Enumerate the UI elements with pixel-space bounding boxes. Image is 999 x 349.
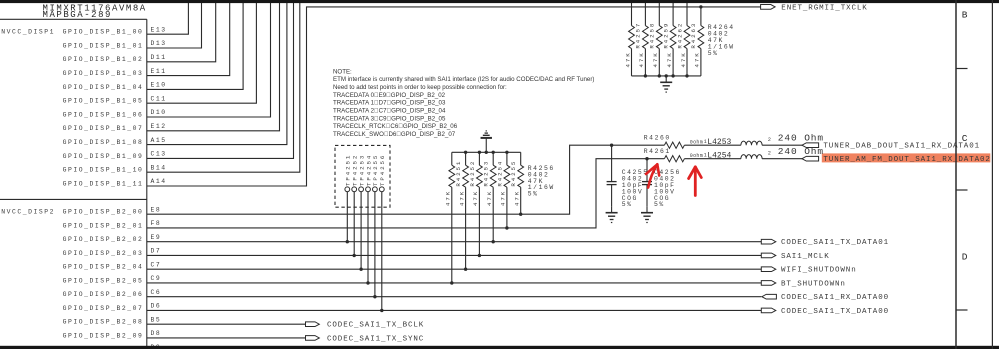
pin GPIO_DISP_B1_10 (B14) and wire (63, 0, 300, 174)
junction dots B2 nets (346, 213, 523, 313)
svg-text:ENET_RGMII_TXCLK: ENET_RGMII_TXCLK (781, 4, 867, 12)
ferrite bead L4253 240 Ohm (704, 132, 824, 147)
resistor R4252 47K (458, 152, 475, 269)
svg-text:R4263: R4263 (690, 22, 697, 49)
svg-text:5%: 5% (708, 50, 719, 57)
svg-text:R4258: R4258 (649, 22, 656, 49)
pin GPIO_DISP_B2_04 (C7) and wire (63, 261, 762, 270)
IC part number label (43, 3, 147, 20)
svg-text:R4253: R4253 (483, 160, 490, 187)
svg-text:D13: D13 (151, 40, 167, 47)
svg-text:C11: C11 (151, 95, 167, 102)
resistor R4257 47K (624, 0, 641, 76)
ground (below C4255) (606, 206, 618, 222)
svg-text:47K: 47K (680, 51, 687, 67)
pin GPIO_DISP_B2_01 (F8) and wire (63, 159, 665, 230)
resistor R4262 47K (666, 0, 683, 76)
svg-text:CODEC_SAI1_TX_DATA01: CODEC_SAI1_TX_DATA01 (781, 239, 889, 247)
off-page flag BT_SHUTDOWNn (761, 280, 846, 288)
svg-text:GPIO_DISP_B2_06: GPIO_DISP_B2_06 (63, 291, 144, 298)
svg-text:TRACEDATA 2C7GPIO_DISP_B2_04: TRACEDATA 2C7GPIO_DISP_B2_04 (333, 108, 446, 115)
resistor R4256 value label (528, 165, 555, 198)
ground (below C4256) (641, 206, 653, 222)
capacitor C4255 value label (622, 169, 649, 208)
svg-text:R4252: R4252 (469, 160, 476, 187)
svg-text:D8: D8 (151, 330, 162, 337)
pin GPIO_DISP_B1_09 (C13) and wire (63, 0, 294, 160)
svg-text:SAI1_MCLK: SAI1_MCLK (781, 253, 830, 261)
svg-text:47K: 47K (694, 51, 701, 67)
svg-text:NVCC_DISP2: NVCC_DISP2 (1, 209, 55, 216)
svg-text:47K: 47K (638, 51, 645, 67)
off-page flag CODEC_SAI1_RX_DATA00 (762, 294, 889, 302)
svg-text:E12: E12 (151, 123, 167, 130)
svg-text:0ohm: 0ohm (690, 139, 703, 145)
note text block (333, 68, 594, 138)
capacitor C4255 10pF (607, 144, 617, 207)
svg-text:NVCC_DISP1: NVCC_DISP1 (1, 29, 55, 36)
svg-text:A15: A15 (151, 137, 167, 144)
svg-text:47K: 47K (486, 190, 493, 206)
svg-text:GPIO_DISP_B2_01: GPIO_DISP_B2_01 (63, 222, 144, 229)
svg-text:47K: 47K (514, 190, 521, 206)
svg-text:TRACECLK_RTCKC6GPIO_DISP_B2_: TRACECLK_RTCKC6GPIO_DISP_B2_06 (333, 123, 458, 130)
pin GPIO_DISP_B1_11 (A14) and wire (63, 7, 761, 188)
svg-text:5%: 5% (528, 191, 539, 198)
svg-text:R4251: R4251 (455, 160, 462, 187)
svg-text:TRACECLK_SWOD6GPIO_DISP_B2_0: TRACECLK_SWOD6GPIO_DISP_B2_07 (333, 131, 456, 138)
ground (above R4251-R4256 rail) (481, 131, 492, 152)
svg-text:WIFI_SHUTDOWNn: WIFI_SHUTDOWNn (781, 267, 857, 275)
svg-text:47K: 47K (666, 51, 673, 67)
pin GPIO_DISP_B1_04 (E10) and wire (63, 0, 243, 91)
highlight net TUNER_AM_FM_DOUT_SAI1_RX_DATA02 (822, 153, 991, 162)
pin GPIO_DISP_B2_00 (E8) and wire (63, 145, 665, 215)
resistor R4258 47K (638, 0, 655, 76)
svg-text:TRACEDATA 3C9GPIO_DISP_B2_05: TRACEDATA 3C9GPIO_DISP_B2_05 (333, 115, 446, 122)
svg-text:B14: B14 (151, 164, 167, 171)
svg-text:C9: C9 (151, 275, 162, 282)
svg-text:GPIO_DISP_B1_06: GPIO_DISP_B1_06 (63, 111, 144, 118)
pin GPIO_DISP_B1_08 (A15) and wire (63, 0, 287, 146)
svg-text:D10: D10 (151, 109, 167, 116)
resistor R4264 47K (694, 7, 704, 76)
svg-text:GPIO_DISP_B1_09: GPIO_DISP_B1_09 (63, 153, 144, 160)
resistor R4256 47K (514, 152, 524, 214)
svg-text:BT_SHUTDOWNn: BT_SHUTDOWNn (781, 280, 846, 288)
wire R4261 to L4254 (684, 158, 741, 160)
wire L4253 to flag (762, 144, 802, 146)
resistor R4260 0ohm (644, 135, 703, 149)
svg-text:A14: A14 (151, 178, 167, 185)
svg-text:MAPBGA-289: MAPBGA-289 (43, 10, 113, 20)
resistor R4259 47K (652, 0, 669, 76)
test point TP4254 (365, 154, 372, 283)
pin GPIO_DISP_B2_07 (D6) and wire (63, 303, 762, 312)
resistor array rail (R4251-R4256 top rail) (452, 151, 521, 154)
svg-text:D11: D11 (151, 54, 167, 61)
svg-text:2: 2 (768, 137, 771, 143)
pin GPIO_DISP_B1_01 (D13) and wire (63, 0, 202, 49)
svg-text:GPIO_DISP_B1_05: GPIO_DISP_B1_05 (63, 98, 144, 105)
pin GPIO_DISP_B1_03 (E11) and wire (63, 0, 230, 77)
svg-text:GPIO_DISP_B1_02: GPIO_DISP_B1_02 (63, 56, 144, 63)
svg-text:47K: 47K (458, 190, 465, 206)
svg-text:47K: 47K (652, 51, 659, 67)
pin GPIO_DISP_B2_08 (B5) and wire (63, 316, 306, 325)
svg-text:R4260: R4260 (644, 135, 671, 142)
svg-text:L4254: L4254 (707, 152, 731, 161)
off-page flag CODEC_SAI1_TX_SYNC (306, 335, 425, 343)
svg-text:47K: 47K (624, 51, 631, 67)
svg-text:R4257: R4257 (635, 22, 642, 49)
svg-text:R4262: R4262 (676, 22, 683, 49)
pin GPIO_DISP_B2_09 (D8) and wire (63, 330, 306, 339)
junction dot R4264 to ENET wire (699, 5, 702, 8)
off-page flag WIFI_SHUTDOWNn (761, 267, 856, 275)
pin GPIO_DISP_B1_02 (D11) and wire (63, 0, 216, 63)
svg-text:GPIO_DISP_B1_07: GPIO_DISP_B1_07 (63, 125, 144, 132)
test point dashed group box (335, 145, 390, 207)
svg-text:E11: E11 (151, 68, 167, 75)
pin GPIO_DISP_B1_00 (E13) and wire (63, 0, 189, 36)
svg-text:240 Ohm: 240 Ohm (778, 146, 824, 157)
wire R4260 to L4253 (684, 144, 741, 146)
svg-text:ETM interface is currently sha: ETM interface is currently shared with S… (333, 76, 594, 83)
svg-text:47K: 47K (500, 190, 507, 206)
test point TP4252 (352, 154, 359, 256)
off-page flag TUNER_AM_FM_DOUT_SAI1_RX_DATA02 (802, 156, 991, 164)
resistor R4263 47K (680, 0, 697, 76)
svg-text:GPIO_DISP_B1_10: GPIO_DISP_B1_10 (63, 167, 144, 174)
svg-text:GPIO_DISP_B2_02: GPIO_DISP_B2_02 (63, 236, 144, 243)
svg-text:GPIO_DISP_B1_04: GPIO_DISP_B1_04 (63, 84, 144, 91)
red annotation arrow 1 (646, 164, 659, 187)
red annotation arrow 2 (689, 167, 702, 196)
off-page flag ENET_RGMII_TXCLK (761, 4, 868, 12)
svg-text:E9: E9 (151, 234, 162, 241)
pin GPIO_DISP_B2_05 (C9) and wire (63, 275, 762, 284)
svg-text:R4261: R4261 (644, 148, 671, 155)
svg-text:GPIO_DISP_B1_00: GPIO_DISP_B1_00 (63, 29, 144, 36)
svg-text:TP4256: TP4256 (379, 154, 386, 186)
IC U4201 MIMXRT1176AVM8A outline (0, 19, 147, 346)
svg-text:E10: E10 (151, 82, 167, 89)
svg-text:GPIO_DISP_B2_00: GPIO_DISP_B2_00 (63, 209, 144, 216)
off-page flag CODEC_SAI1_TX_BCLK (306, 322, 425, 330)
svg-text:TUNER_AM_FM_DOUT_SAI1_RX_DATA0: TUNER_AM_FM_DOUT_SAI1_RX_DATA02 (823, 156, 990, 164)
svg-text:GPIO_DISP_B2_03: GPIO_DISP_B2_03 (63, 250, 144, 257)
svg-text:2: 2 (768, 151, 771, 157)
svg-text:C: C (962, 133, 968, 144)
svg-text:CODEC_SAI1_TX_SYNC: CODEC_SAI1_TX_SYNC (327, 335, 424, 343)
pin GPIO_DISP_B1_05 (C11) and wire (63, 0, 257, 105)
svg-text:C6: C6 (151, 289, 162, 296)
test point TP4255 (372, 154, 379, 297)
svg-text:GPIO_DISP_B1_11: GPIO_DISP_B1_11 (63, 180, 144, 187)
svg-text:240 Ohm: 240 Ohm (778, 132, 824, 143)
svg-text:Need to add test points in ord: Need to add test points in order to keep… (333, 84, 507, 91)
bottom border bar (0, 346, 999, 349)
svg-text:GPIO_DISP_B2_09: GPIO_DISP_B2_09 (63, 332, 144, 339)
svg-text:5%: 5% (622, 201, 633, 208)
svg-text:B5: B5 (151, 316, 162, 323)
svg-text:E13: E13 (151, 26, 167, 33)
pin GPIO_DISP_B1_07 (E12) and wire (63, 0, 280, 132)
svg-text:GPIO_DISP_B1_08: GPIO_DISP_B1_08 (63, 139, 144, 146)
svg-text:5%: 5% (654, 201, 665, 208)
resistor array bottom rail (R4257-R4264) (632, 74, 701, 77)
resistor R4264 value label (708, 24, 735, 57)
pin GPIO_DISP_B1_06 (D10) and wire (63, 0, 271, 118)
svg-text:GPIO_DISP_B2_08: GPIO_DISP_B2_08 (63, 319, 144, 326)
svg-text:0ohm: 0ohm (690, 153, 703, 159)
svg-text:R4254: R4254 (496, 160, 503, 187)
pin GPIO_DISP_B2_06 (C6) and wire (63, 289, 762, 298)
svg-text:TRACEDATA 1D7GPIO_DISP_B2_03: TRACEDATA 1D7GPIO_DISP_B2_03 (333, 100, 446, 107)
svg-text:CODEC_SAI1_RX_DATA00: CODEC_SAI1_RX_DATA00 (781, 294, 889, 302)
off-page flag CODEC_SAI1_TX_DATA00 (761, 308, 889, 316)
ferrite bead L4254 240 Ohm (704, 146, 824, 161)
svg-text:E8: E8 (151, 206, 162, 213)
capacitor C4256 10pF (642, 157, 652, 206)
right border lines and zone letters (956, 0, 992, 349)
svg-text:GPIO_DISP_B2_07: GPIO_DISP_B2_07 (63, 305, 144, 312)
resistor R4255 47K (500, 152, 517, 228)
pin GPIO_DISP_B2_03 (D7) and wire (63, 248, 762, 257)
svg-text:GPIO_DISP_B1_03: GPIO_DISP_B1_03 (63, 70, 144, 77)
svg-text:GPIO_DISP_B2_05: GPIO_DISP_B2_05 (63, 277, 144, 284)
svg-text:F8: F8 (151, 220, 162, 227)
test point TP4251 (345, 154, 352, 242)
wire L4254 to flag (762, 158, 802, 160)
svg-text:D: D (962, 251, 968, 262)
svg-text:C7: C7 (151, 261, 162, 268)
top border bar (0, 0, 999, 3)
capacitor C4256 value label (654, 169, 681, 208)
svg-text:CODEC_SAI1_TX_BCLK: CODEC_SAI1_TX_BCLK (327, 322, 424, 330)
svg-text:C13: C13 (151, 151, 167, 158)
svg-text:GPIO_DISP_B2_04: GPIO_DISP_B2_04 (63, 264, 144, 271)
off-page flag TUNER_DAB_DOUT_SAI1_RX_DATA01 (802, 143, 980, 151)
pin GPIO_DISP_B2_02 (E9) and wire (63, 234, 762, 243)
svg-text:L4253: L4253 (707, 138, 731, 147)
resistor R4253 47K (472, 152, 489, 255)
svg-text:D7: D7 (151, 248, 162, 255)
resistor R4254 47K (486, 152, 503, 241)
off-page flag CODEC_SAI1_TX_DATA01 (761, 239, 889, 247)
svg-text:TRACEDATA 0E9GPIO_DISP_B2_02: TRACEDATA 0E9GPIO_DISP_B2_02 (333, 92, 446, 99)
svg-text:D6: D6 (151, 303, 162, 310)
resistor R4261 0ohm (644, 148, 703, 162)
test point TP4253 (358, 154, 365, 269)
svg-text:B: B (962, 9, 968, 20)
svg-text:47K: 47K (445, 190, 452, 206)
svg-text:R4255: R4255 (510, 160, 517, 187)
test point TP4256 (379, 154, 386, 311)
svg-text:CODEC_SAI1_TX_DATA00: CODEC_SAI1_TX_DATA00 (781, 308, 889, 316)
off-page flag SAI1_MCLK (761, 253, 829, 261)
ground (below R4257-R4264 rail) (660, 76, 672, 92)
svg-text:R4259: R4259 (663, 22, 670, 49)
svg-text:47K: 47K (472, 190, 479, 206)
resistor R4251 47K (445, 152, 462, 283)
svg-text:GPIO_DISP_B1_01: GPIO_DISP_B1_01 (63, 42, 144, 49)
svg-text:NOTE:: NOTE: (333, 68, 352, 75)
